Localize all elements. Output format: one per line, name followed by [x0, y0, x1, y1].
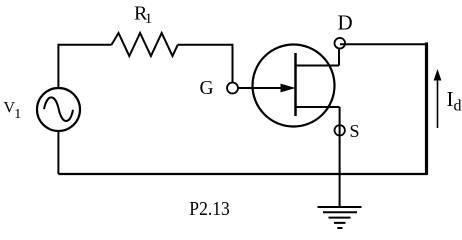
- svg-text:1: 1: [145, 11, 153, 27]
- svg-text:D: D: [338, 11, 353, 35]
- source internal wire: [296, 106, 340, 108]
- gate wire with arrow into transistor: [238, 87, 293, 89]
- right rail (thick): [425, 43, 428, 176]
- node D terminal circle: [335, 38, 346, 49]
- voltage source V1: [37, 88, 80, 131]
- wire source terminal down to ground: [339, 107, 341, 207]
- drain internal wire: [296, 49, 340, 66]
- wire resistor to gate corner: [178, 45, 233, 83]
- resistor R1: [112, 33, 178, 56]
- transistor channel bar: [294, 53, 297, 116]
- current arrow Id: [437, 79, 439, 128]
- ground: [318, 207, 362, 228]
- transistor Q1 (JFET) body circle: [253, 45, 335, 127]
- svg-text:I: I: [447, 87, 454, 111]
- wire top-left (source top to resistor): [58, 45, 111, 88]
- node S terminal circle: [335, 125, 345, 135]
- svg-text:S: S: [350, 121, 360, 141]
- bottom rail wire: [58, 173, 427, 175]
- node G terminal circle: [227, 83, 238, 94]
- svg-text:1: 1: [14, 107, 21, 122]
- svg-text:P2.13: P2.13: [189, 198, 230, 220]
- sine wave inside V1: [44, 97, 73, 121]
- wire D terminal to right rail: [340, 43, 426, 45]
- svg-text:d: d: [454, 98, 462, 115]
- wire source bottom to bottom rail: [57, 131, 59, 174]
- svg-text:G: G: [200, 78, 214, 99]
